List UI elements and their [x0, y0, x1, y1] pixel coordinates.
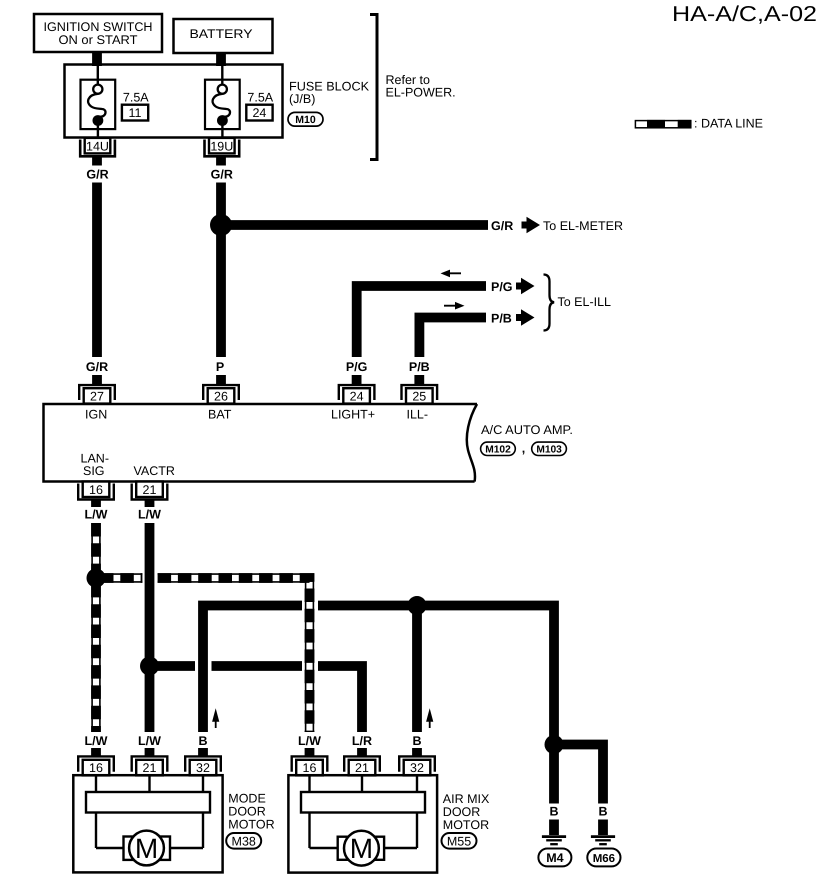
svg-text:A/C AUTO AMP.: A/C AUTO AMP.: [481, 423, 573, 437]
svg-text:19U: 19U: [210, 140, 233, 154]
svg-text:To EL-ILL: To EL-ILL: [558, 295, 612, 309]
svg-text:AIR MIX: AIR MIX: [443, 792, 490, 806]
svg-text:HA-A/C,A-02: HA-A/C,A-02: [672, 2, 817, 26]
svg-text:EL-POWER.: EL-POWER.: [386, 86, 456, 100]
svg-text:BATTERY: BATTERY: [190, 27, 254, 41]
svg-text:P/G: P/G: [346, 360, 368, 374]
svg-text:27: 27: [90, 389, 104, 403]
svg-text:32: 32: [410, 761, 424, 775]
svg-text:24: 24: [350, 389, 364, 403]
svg-text:M38: M38: [232, 834, 256, 848]
svg-text:16: 16: [89, 483, 103, 497]
svg-text:7.5A: 7.5A: [123, 91, 149, 105]
svg-text:11: 11: [129, 106, 142, 120]
svg-text:DOOR: DOOR: [443, 805, 481, 819]
svg-text:IGNITION SWITCH: IGNITION SWITCH: [44, 20, 153, 34]
svg-text:M66: M66: [593, 853, 615, 865]
svg-text:25: 25: [412, 389, 426, 403]
svg-text:MODE: MODE: [228, 791, 265, 805]
svg-text:L/R: L/R: [352, 734, 372, 748]
svg-text:L/W: L/W: [138, 734, 161, 748]
svg-text:16: 16: [303, 761, 317, 775]
svg-text:21: 21: [143, 483, 157, 497]
svg-text:B: B: [598, 804, 607, 818]
svg-text:P/G: P/G: [491, 280, 513, 294]
svg-text:(J/B): (J/B): [289, 92, 315, 106]
svg-text:M4: M4: [546, 851, 563, 865]
svg-text:MOTOR: MOTOR: [443, 818, 489, 832]
svg-text:26: 26: [214, 389, 228, 403]
svg-text:21: 21: [355, 761, 369, 775]
svg-text:P/B: P/B: [491, 312, 512, 326]
svg-text:G/R: G/R: [86, 360, 108, 374]
svg-text:L/W: L/W: [138, 508, 161, 522]
svg-text:DOOR: DOOR: [228, 804, 265, 818]
svg-text:VACTR: VACTR: [134, 464, 175, 478]
svg-text:M10: M10: [295, 114, 316, 126]
svg-text:ON or START: ON or START: [59, 33, 138, 47]
svg-text:M55: M55: [447, 834, 471, 848]
svg-text:14U: 14U: [86, 140, 109, 154]
svg-text:L/W: L/W: [85, 734, 108, 748]
svg-text:B: B: [198, 734, 207, 748]
svg-text:M: M: [135, 833, 158, 864]
svg-text:IGN: IGN: [85, 407, 107, 421]
svg-text:24: 24: [252, 106, 266, 120]
svg-text:MOTOR: MOTOR: [228, 817, 274, 831]
svg-text:: DATA LINE: : DATA LINE: [694, 117, 763, 131]
svg-text:G/R: G/R: [491, 219, 513, 233]
svg-text:21: 21: [143, 761, 157, 775]
svg-text:M: M: [350, 833, 373, 864]
svg-text:L/W: L/W: [298, 734, 321, 748]
svg-text:,: ,: [522, 442, 525, 456]
svg-text:SIG: SIG: [83, 464, 105, 478]
svg-text:LIGHT+: LIGHT+: [331, 407, 375, 421]
svg-text:7.5A: 7.5A: [247, 91, 273, 105]
svg-text:B: B: [412, 734, 421, 748]
svg-text:G/R: G/R: [211, 168, 233, 182]
svg-text:ILL-: ILL-: [407, 407, 429, 421]
svg-text:32: 32: [196, 761, 210, 775]
svg-text:To EL-METER: To EL-METER: [543, 219, 623, 233]
svg-text:P/B: P/B: [409, 360, 430, 374]
svg-text:M102: M102: [485, 444, 511, 455]
svg-text:B: B: [549, 804, 558, 818]
svg-text:P: P: [216, 360, 224, 374]
svg-text:L/W: L/W: [85, 508, 108, 522]
svg-text:16: 16: [89, 761, 103, 775]
svg-text:G/R: G/R: [86, 168, 108, 182]
svg-text:BAT: BAT: [208, 407, 232, 421]
svg-text:M103: M103: [536, 444, 562, 455]
